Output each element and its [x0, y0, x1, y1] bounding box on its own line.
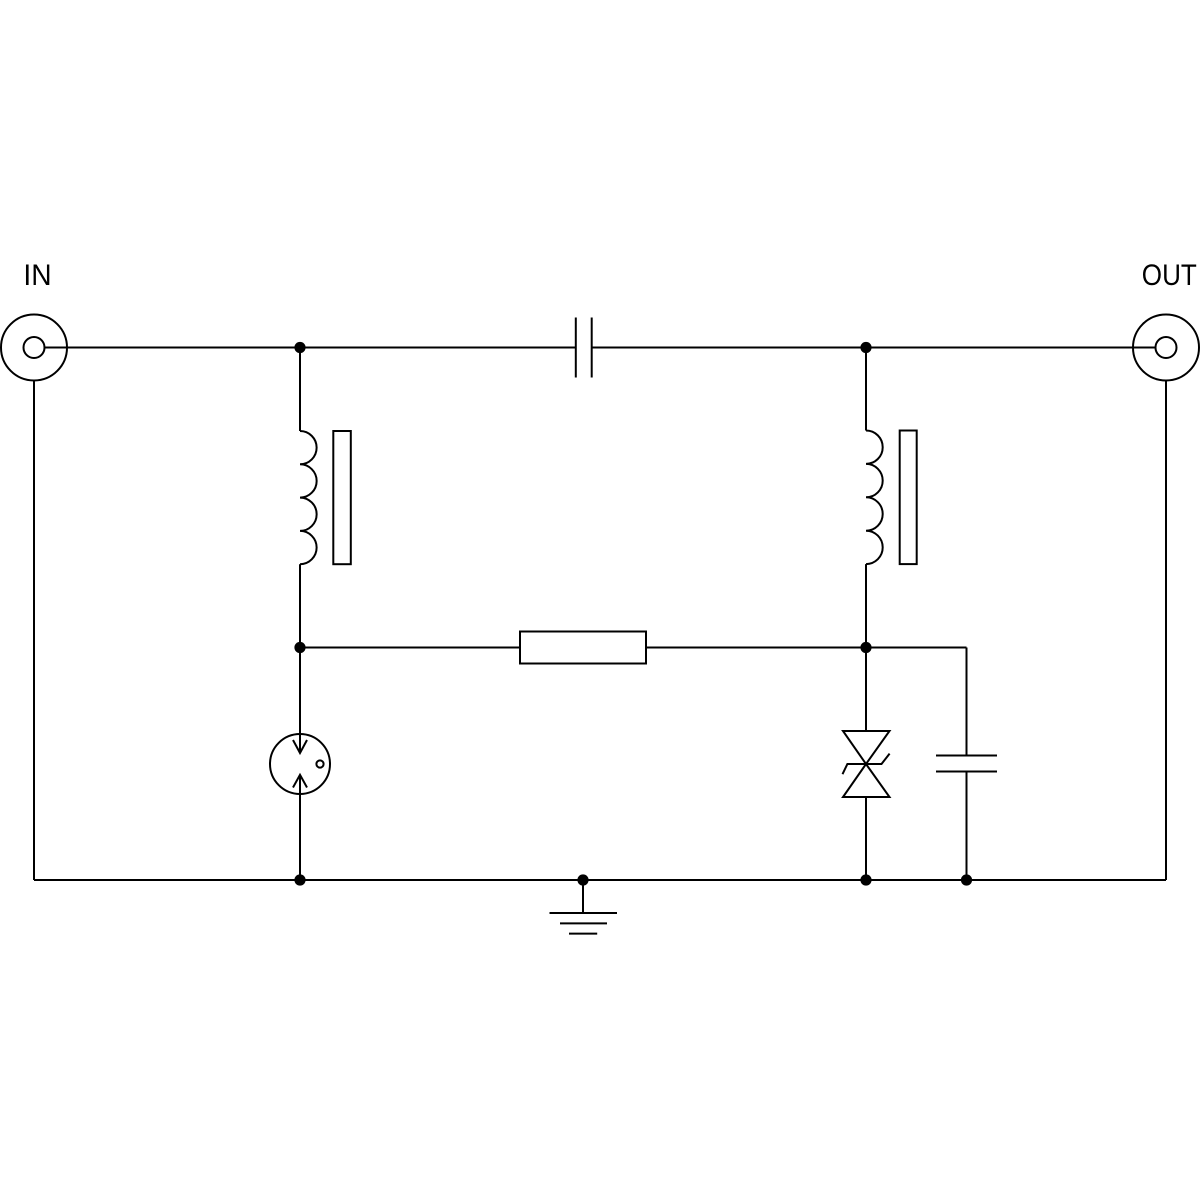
node: junction dot bottom rail / TVS — [860, 874, 871, 885]
wire from L2 to middle rail — [865, 564, 867, 647]
node: junction dot bottom rail / GDT — [294, 874, 305, 885]
node: junction dot middle rail / L2 — [860, 642, 871, 653]
wire bottom rail — [34, 879, 1166, 881]
svg-text:IN: IN — [23, 259, 51, 292]
wire from gas discharge tube to bottom rail — [299, 775, 301, 880]
inductor L1 core bar — [333, 431, 351, 564]
inductor L2 coil — [866, 431, 883, 565]
wire corner down to C2 — [966, 648, 968, 756]
connector J1 (IN) — [1, 315, 67, 381]
node: junction dot bottom rail / ground — [577, 874, 588, 885]
wire from middle rail down into gas discharge tube — [299, 648, 301, 754]
wire top from C1 right plate to OUT — [592, 347, 1156, 349]
svg-text:OUT: OUT — [1142, 259, 1197, 292]
wire from C2 to bottom rail — [966, 772, 968, 881]
wire left vertical from IN down to bottom rail — [33, 381, 35, 881]
gas discharge tube F1 — [270, 734, 330, 794]
ground — [550, 913, 618, 934]
TVS diode D1 (bidirectional) — [843, 731, 890, 797]
middle rail left segment from node to R1 — [300, 647, 520, 649]
wire from middle rail down to TVS diode — [865, 648, 867, 732]
wire from TVS diode to bottom rail — [865, 797, 867, 880]
wire top from IN to C1 left plate — [45, 347, 576, 349]
wire from top rail to L2 — [865, 348, 867, 431]
capacitor C1 (series, top) — [576, 318, 592, 378]
capacitor C2 (shunt, right) — [936, 756, 997, 772]
node: junction dot middle rail / L1 — [294, 642, 305, 653]
node: junction dot top rail / L2 — [860, 342, 871, 353]
wire right vertical from OUT down to bottom rail — [1165, 381, 1167, 881]
wire from top rail to L1 — [299, 348, 301, 432]
resistor R1 — [520, 632, 646, 664]
middle rail right segment from R1 to corner — [646, 647, 967, 649]
wire ground stub — [582, 880, 584, 913]
wire from L1 to middle rail — [299, 564, 301, 647]
inductor L2 core bar — [900, 431, 917, 565]
node: junction dot bottom rail / C2 — [961, 874, 972, 885]
node: junction dot top rail / L1 — [294, 342, 305, 353]
connector J2 (OUT) — [1133, 315, 1199, 381]
inductor L1 coil — [300, 431, 317, 564]
